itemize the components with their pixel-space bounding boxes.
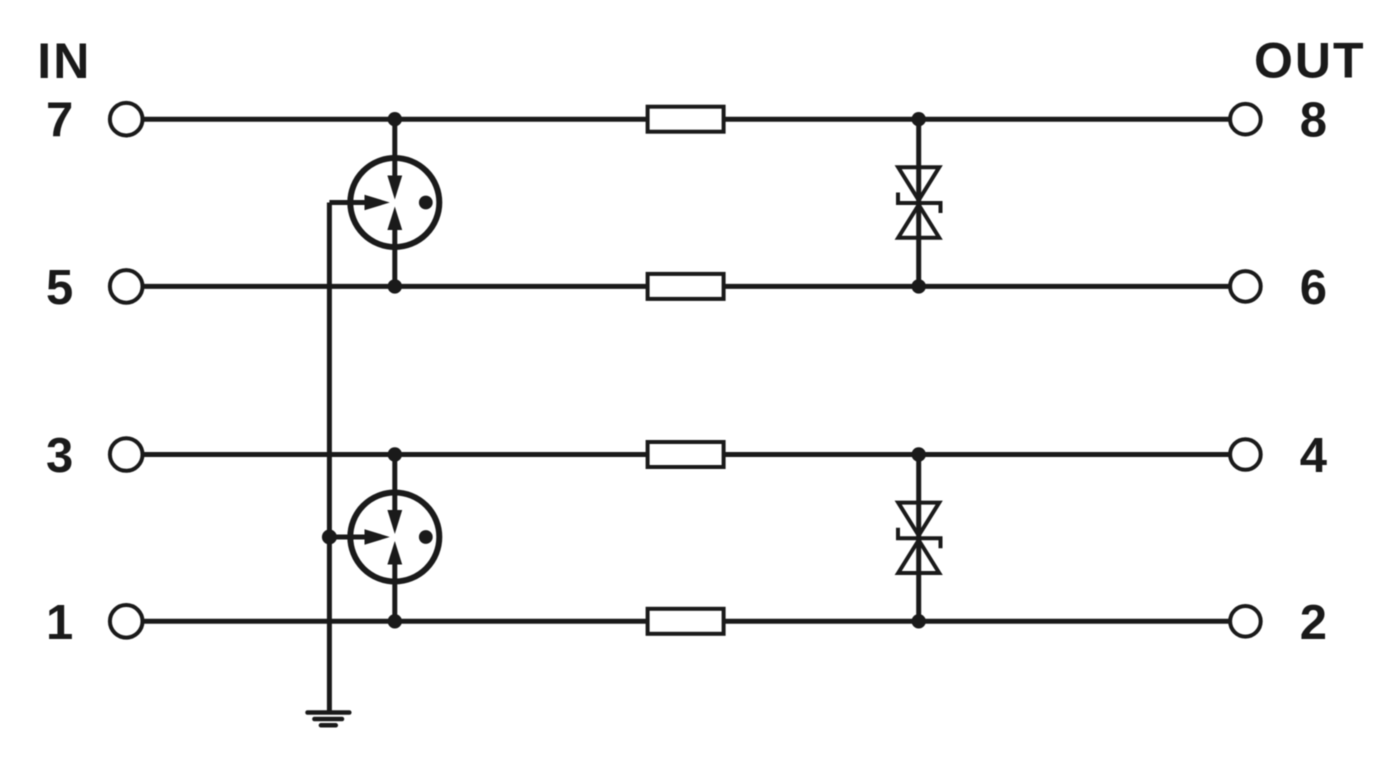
svg-text:OUT: OUT bbox=[1254, 33, 1366, 89]
svg-text:3: 3 bbox=[46, 429, 73, 483]
svg-text:8: 8 bbox=[1300, 94, 1327, 148]
svg-text:IN: IN bbox=[37, 33, 91, 89]
svg-text:2: 2 bbox=[1300, 596, 1327, 650]
svg-text:7: 7 bbox=[46, 94, 73, 148]
svg-text:4: 4 bbox=[1300, 429, 1327, 483]
svg-text:6: 6 bbox=[1300, 261, 1327, 315]
svg-text:1: 1 bbox=[46, 596, 73, 650]
svg-text:5: 5 bbox=[46, 261, 73, 315]
